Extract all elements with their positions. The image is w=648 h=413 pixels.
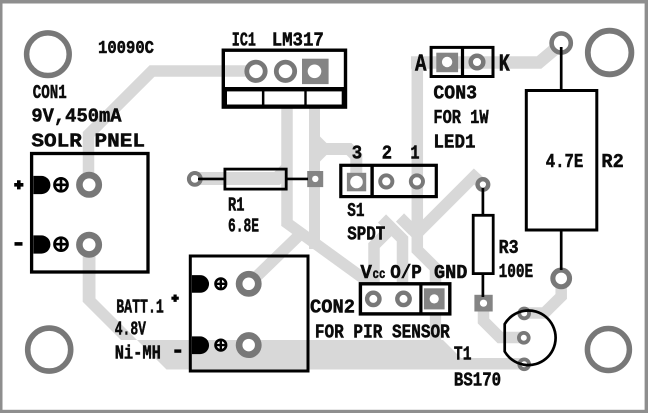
svg-text:SOLR PNEL: SOLR PNEL — [31, 130, 145, 152]
CON2 GND pad (square) — [424, 288, 445, 309]
BATT - wire blob — [192, 336, 209, 354]
wire: R2 bottom pad to T1 top pad — [524, 276, 561, 313]
T1 bottom pad — [519, 359, 529, 369]
wire: CON1 - pad down, diagonal, and bottom ground bus to T1 bottom pad — [83, 245, 527, 370]
svg-text:IC1: IC1 — [232, 29, 256, 51]
svg-text:BATT.1: BATT.1 — [116, 296, 164, 318]
R2 bottom pad — [553, 270, 570, 287]
BATT + wire blob — [192, 275, 209, 293]
transistor T1 TO-92 outline — [505, 311, 556, 366]
svg-text:GND: GND — [434, 262, 467, 284]
CON1 + wire blob — [33, 176, 50, 194]
R1 left pad — [189, 173, 201, 185]
svg-text:R1: R1 — [228, 195, 245, 217]
wire: R3 bottom pad to T1 middle pad — [484, 302, 525, 338]
wire: CON3 A pad down through S1 pin1 to CON2 GND pad — [417, 60, 435, 299]
CON1 - pad — [79, 235, 98, 254]
svg-text:3: 3 — [352, 142, 362, 164]
svg-text:FOR PIR SENSOR: FOR PIR SENSOR — [315, 322, 450, 344]
R1 right pad (square) — [307, 171, 323, 187]
svg-text:K: K — [499, 52, 510, 79]
wire: branch from IC1 pin3 vertical to S1 pin 3 — [315, 149, 357, 178]
wire: branch to BATT + pad — [249, 234, 301, 284]
IC1 pad 1 — [247, 62, 265, 80]
T1 middle pad — [519, 333, 529, 343]
svg-text:cc: cc — [373, 267, 386, 283]
CON1 + screw symbol — [55, 178, 68, 191]
wire: CON3 row to via pad near R2 — [411, 44, 561, 63]
CON3 pin K pad — [471, 56, 484, 69]
svg-text:10090C: 10090C — [98, 37, 154, 59]
connector CON1 box — [32, 154, 148, 273]
svg-text:6.8E: 6.8E — [228, 216, 259, 238]
mounting hole top-left — [27, 33, 70, 76]
svg-text:V: V — [360, 262, 372, 284]
CON2 O/P pad — [397, 293, 409, 305]
svg-text:CON2: CON2 — [310, 297, 355, 319]
svg-text:FOR 1W: FOR 1W — [433, 107, 489, 129]
svg-text:CON1: CON1 — [33, 82, 67, 104]
wire: IC1 pin2 down and diagonal to CON2 Vcc — [287, 104, 378, 289]
wire: branch down-left into CON2 Vcc vertical — [374, 228, 392, 292]
resistor R1 — [198, 178, 226, 181]
S1 pin2 pad — [380, 175, 392, 187]
BATT + pad — [239, 274, 258, 293]
connector CON2 box — [360, 284, 449, 314]
switch S1 box — [341, 165, 437, 196]
wire: CON2 GND pad down to ground bus — [430, 300, 441, 343]
svg-text:T1: T1 — [454, 344, 472, 366]
BATT - screw symbol — [216, 340, 227, 351]
IC U1: IC1 LM317 header outline — [223, 50, 345, 107]
BATT - sign — [174, 349, 181, 352]
svg-text:O/P: O/P — [390, 262, 422, 284]
battery BATT.1 box — [190, 256, 308, 371]
CON1 + sign — [14, 180, 23, 189]
CON1 - wire blob — [33, 235, 50, 253]
wire: R3 top pad diagonal down-left to CON3 A vertical — [413, 177, 483, 239]
wire: junction fillets at IC1 pin3 branch — [320, 137, 327, 144]
svg-text:100E: 100E — [499, 261, 533, 283]
resistor R3 — [482, 188, 485, 216]
svg-text:R3: R3 — [499, 237, 519, 259]
CON2 Vcc pad — [367, 293, 379, 305]
IC1 pad 3 (square) — [302, 59, 329, 84]
BATT + screw symbol — [216, 279, 227, 290]
svg-text:S1: S1 — [347, 200, 364, 222]
mounting hole bottom-right — [587, 329, 629, 371]
IC1 pad 2 — [276, 62, 294, 80]
CON1 - sign — [15, 242, 23, 246]
BATT + sign — [171, 295, 178, 302]
resistor R2 — [560, 47, 563, 92]
wire: diagonal feed into CON2 O/P vertical — [382, 219, 403, 297]
svg-text:Ni-MH: Ni-MH — [115, 343, 161, 365]
svg-text:CON3: CON3 — [433, 82, 477, 104]
S1 pin1 pad — [411, 175, 423, 187]
svg-text:9V,450mA: 9V,450mA — [31, 106, 122, 128]
CON3 pin A pad (square) — [436, 53, 458, 72]
wire: IC1 pin1 to CON1 + pad — [89, 71, 257, 182]
CON1 - screw symbol — [55, 238, 68, 251]
svg-text:A: A — [415, 52, 427, 79]
CON1 + pad — [79, 175, 98, 194]
svg-text:R2: R2 — [601, 151, 623, 173]
BATT - pad — [239, 336, 258, 355]
R3 bottom pad (square) — [474, 295, 492, 312]
wire: R1 left pad to IC1 pin2 vertical, under R1 body — [195, 169, 287, 179]
mounting hole top-right — [588, 31, 632, 75]
svg-text:BS170: BS170 — [454, 370, 501, 392]
wire: short branch into S1 pin1 vertical — [400, 218, 413, 231]
svg-text:SPDT: SPDT — [347, 224, 385, 246]
svg-text:1: 1 — [410, 142, 419, 164]
S1 pin3 pad (square) — [347, 173, 366, 192]
mounting hole bottom-left — [28, 328, 71, 371]
wire: IC1 pin3 down through R1 right pad, merge into Vcc diagonal — [309, 104, 320, 249]
R3 top pad — [478, 179, 489, 190]
svg-text:LM317: LM317 — [272, 29, 324, 51]
svg-text:2: 2 — [382, 142, 392, 164]
T1 top pad — [519, 309, 529, 319]
connector CON3 box — [431, 47, 493, 76]
svg-text:LED1: LED1 — [433, 132, 475, 154]
svg-text:4.7E: 4.7E — [546, 151, 584, 173]
svg-text:4.8V: 4.8V — [115, 319, 147, 341]
via pad near R2 top — [552, 33, 571, 52]
